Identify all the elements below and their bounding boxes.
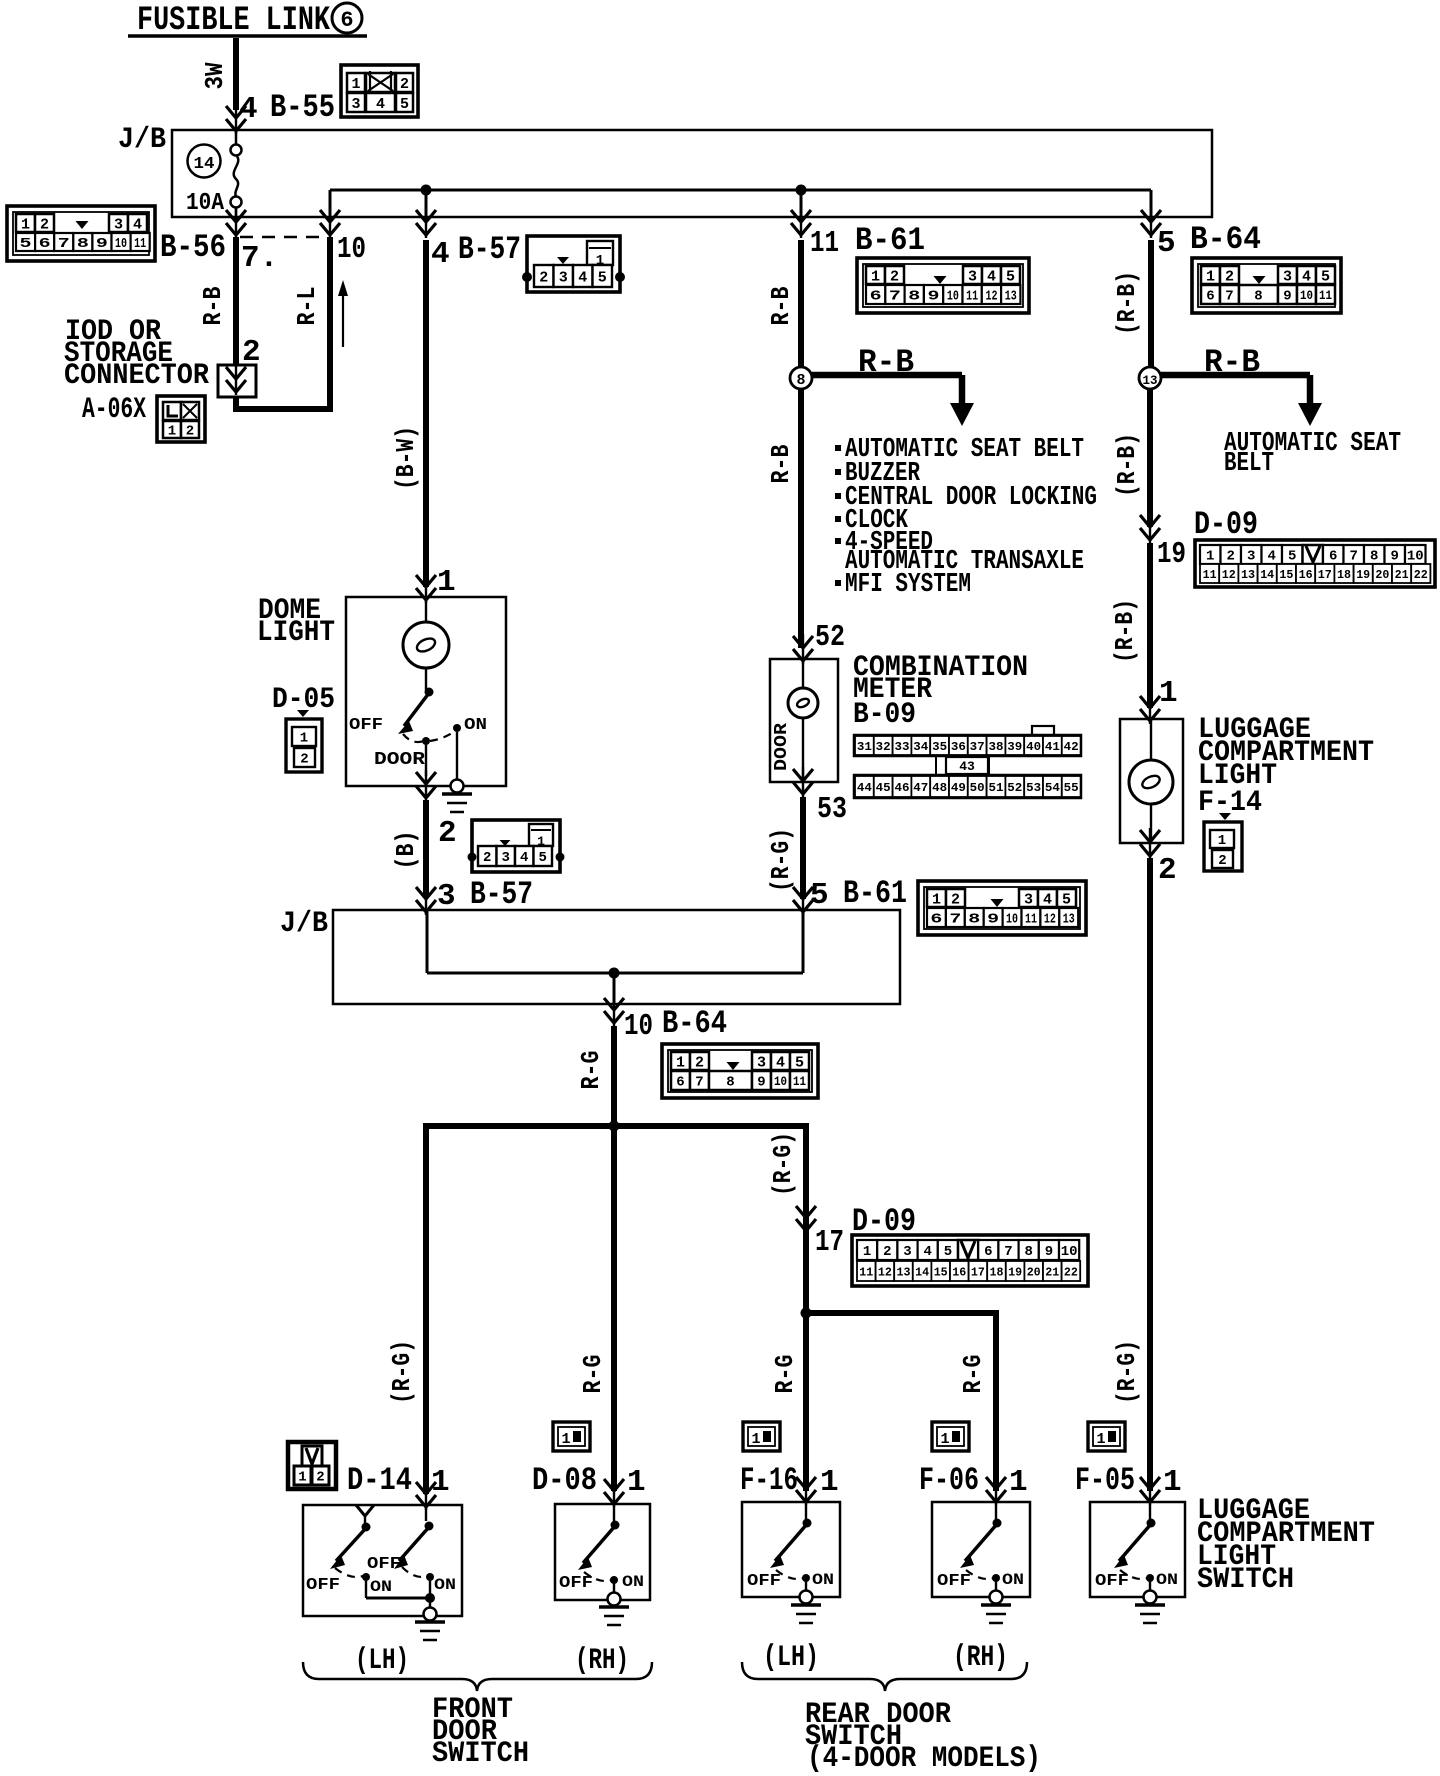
svg-text:11: 11	[134, 236, 146, 252]
svg-text:F-06: F-06	[919, 1462, 979, 1499]
label pin 1 luggage	[1159, 676, 1178, 711]
svg-text:1: 1	[871, 268, 880, 285]
svg-text:19: 19	[1356, 568, 1370, 582]
label pin 4 B-57	[431, 231, 521, 272]
svg-text:4: 4	[923, 1244, 931, 1260]
svg-text:5: 5	[1288, 549, 1296, 565]
junction node in J/B at B-57 feed	[421, 185, 432, 196]
svg-text:38: 38	[989, 740, 1004, 754]
front door switch RH D-08 box	[555, 1504, 650, 1625]
svg-text:4: 4	[1302, 268, 1311, 285]
connector F-14 icon	[1204, 813, 1242, 871]
svg-text:7: 7	[889, 289, 901, 305]
svg-text:(B): (B)	[391, 831, 421, 870]
svg-text:1: 1	[820, 1465, 839, 1500]
svg-text:13: 13	[1241, 568, 1255, 582]
wire elbow A-06X to J/B pin 10 (R-L)	[236, 237, 330, 409]
svg-text:4: 4	[239, 92, 258, 127]
text COMBINATION METER B-09	[853, 651, 1028, 732]
svg-text:R-L: R-L	[292, 287, 322, 326]
svg-text:10: 10	[774, 1074, 787, 1089]
svg-text:1: 1	[627, 1465, 646, 1500]
svg-text:F-05: F-05	[1075, 1462, 1135, 1499]
svg-text:6: 6	[930, 912, 942, 928]
svg-text:B-64: B-64	[1190, 221, 1261, 258]
svg-text:1: 1	[1096, 1431, 1105, 1448]
wire (B-W) J/B to dome light	[423, 240, 429, 587]
svg-text:32: 32	[876, 740, 891, 754]
svg-text:2: 2	[539, 269, 548, 286]
brace rear door switches	[742, 1662, 1027, 1691]
rear door switch RH F-06 label	[919, 1462, 1028, 1500]
label pin 2 A-06X	[242, 335, 261, 370]
svg-text:R-B: R-B	[1204, 344, 1260, 381]
svg-text:4: 4	[520, 850, 528, 866]
fuse 14 circle label	[188, 145, 221, 178]
svg-text:7.: 7.	[241, 241, 278, 276]
svg-text:B-61: B-61	[843, 875, 907, 912]
wire label (R-G) D-09	[768, 1132, 798, 1196]
IOD terminal box A-06X with chevrons	[218, 365, 256, 397]
chevrons meter pin 52	[793, 634, 813, 664]
wire (R-B) node 13 to D-09	[1147, 389, 1153, 527]
svg-text:OFF: OFF	[367, 1555, 401, 1574]
svg-text:46: 46	[895, 781, 910, 795]
svg-text:11: 11	[966, 289, 978, 305]
chevrons B-56 pin 10	[320, 208, 340, 238]
svg-text:41: 41	[1045, 740, 1060, 754]
meter DOOR lamp	[788, 661, 818, 780]
wire label (B)	[391, 831, 421, 870]
wire fusible link to J/B (3W)	[233, 38, 239, 110]
connector B-09 icon	[854, 726, 1081, 798]
svg-text:7: 7	[695, 1075, 703, 1091]
svg-text:40: 40	[1026, 740, 1041, 754]
svg-text:20: 20	[1027, 1265, 1041, 1279]
svg-text:1: 1	[1206, 268, 1215, 285]
svg-text:A-06X: A-06X	[82, 393, 146, 427]
svg-text:9: 9	[987, 912, 999, 928]
svg-text:37: 37	[970, 740, 985, 754]
svg-text:3: 3	[502, 850, 510, 866]
svg-text:5: 5	[1157, 226, 1176, 261]
label (LH) rear	[763, 1641, 819, 1675]
svg-text:F-16: F-16	[740, 1462, 798, 1499]
label pin 2 luggage	[1158, 853, 1177, 888]
svg-text:5: 5	[1062, 891, 1071, 908]
label pin 10	[337, 232, 366, 267]
svg-text:4: 4	[1043, 891, 1052, 908]
svg-text:1: 1	[300, 731, 308, 747]
svg-text:45: 45	[876, 781, 891, 795]
chevrons dome light pin 2 exit	[416, 770, 436, 801]
svg-text:21: 21	[1395, 568, 1409, 582]
svg-text:8: 8	[908, 289, 920, 305]
svg-text:2: 2	[1218, 853, 1226, 869]
svg-text:13: 13	[897, 1265, 911, 1279]
connector B-55 icon	[341, 65, 418, 117]
dome light housing D-05	[346, 597, 506, 786]
svg-text:11: 11	[810, 226, 839, 261]
svg-text:CONNECTOR: CONNECTOR	[64, 359, 209, 393]
svg-text:36: 36	[951, 740, 966, 754]
wire label R-B (B-61)	[766, 286, 796, 325]
text FRONT DOOR SWITCH	[432, 1693, 529, 1771]
svg-text:LIGHT: LIGHT	[257, 616, 335, 650]
svg-text:1: 1	[437, 565, 456, 600]
svg-text:7: 7	[1350, 549, 1358, 565]
svg-text:22: 22	[1064, 1265, 1078, 1279]
connector B-64 icon lower	[662, 1044, 818, 1098]
svg-text:OFF: OFF	[747, 1572, 781, 1591]
rear door switch RH F-06 box	[932, 1502, 1030, 1623]
svg-text:4: 4	[376, 96, 385, 113]
connector B-57 icon upper	[522, 236, 625, 292]
label ON dome	[464, 716, 487, 735]
svg-text:11: 11	[1203, 568, 1217, 582]
svg-text:7: 7	[1225, 289, 1233, 305]
svg-text:5: 5	[795, 1054, 804, 1071]
svg-text:10A: 10A	[186, 190, 225, 217]
svg-text:18: 18	[990, 1265, 1004, 1279]
svg-text:1: 1	[1163, 1465, 1182, 1500]
svg-text:53: 53	[817, 792, 847, 827]
label D-05	[272, 683, 335, 717]
svg-text:10: 10	[337, 232, 366, 267]
wire label R-B lower	[766, 444, 796, 483]
svg-text:51: 51	[989, 781, 1004, 795]
label pin 53	[817, 792, 847, 827]
text DOME LIGHT	[257, 594, 335, 650]
svg-text:B-64: B-64	[662, 1005, 727, 1042]
svg-text:8: 8	[1370, 549, 1378, 565]
chevrons at B-55 pin 4 crossing	[226, 104, 246, 134]
svg-text:8: 8	[968, 912, 980, 928]
svg-text:10: 10	[1300, 288, 1313, 303]
svg-text:11: 11	[1319, 288, 1332, 303]
label R-B branch	[858, 344, 914, 381]
direction arrow up beside R-L	[338, 280, 348, 347]
wire label R-G D-08	[578, 1355, 608, 1394]
svg-text:13: 13	[1063, 912, 1075, 928]
svg-text:ON: ON	[622, 1573, 644, 1591]
svg-text:2: 2	[1225, 268, 1234, 285]
wire (R-G) bus to D-09 pin 17	[803, 1126, 809, 1313]
label (LH) front	[355, 1644, 409, 1678]
front door switch RH D-08 label	[532, 1462, 646, 1500]
svg-text:R-B: R-B	[766, 286, 796, 325]
wire to rear door switch LH	[803, 1313, 809, 1491]
text IOD OR STORAGE CONNECTOR	[64, 315, 209, 393]
ground at dome light	[442, 780, 472, 813]
wire (R-G) to front door switch LH	[423, 1126, 429, 1494]
chevrons dome light pin 1	[416, 573, 436, 603]
svg-text:15: 15	[934, 1265, 948, 1279]
wire R-G J/B to door switch bus	[611, 1026, 617, 1126]
combination meter housing	[770, 659, 838, 782]
svg-text:5: 5	[1321, 268, 1330, 285]
svg-text:R-B: R-B	[198, 286, 228, 325]
svg-text:13: 13	[1143, 373, 1158, 388]
chevrons F-05 pin 1	[1140, 1475, 1160, 1505]
svg-text:8: 8	[726, 1075, 734, 1091]
connector F-05 icon	[1088, 1422, 1125, 1451]
svg-text:12: 12	[1044, 912, 1056, 928]
svg-text:D-14: D-14	[347, 1462, 412, 1499]
svg-text:43: 43	[959, 759, 975, 774]
svg-text:B-09: B-09	[853, 698, 916, 732]
connector F-16 icon	[743, 1422, 780, 1451]
svg-text:2: 2	[890, 268, 899, 285]
chevrons J/B entry pin 5	[793, 885, 813, 915]
svg-text:9: 9	[1283, 289, 1291, 305]
svg-text:SWITCH: SWITCH	[1197, 1563, 1294, 1597]
svg-text:17: 17	[1318, 568, 1332, 582]
svg-text:7: 7	[949, 912, 961, 928]
chevrons D-09 pin 19	[1140, 513, 1160, 543]
chevrons B-64 pin 5	[1141, 208, 1161, 238]
svg-text:B-56: B-56	[160, 229, 226, 266]
svg-text:(B-W): (B-W)	[391, 426, 421, 490]
svg-text:1: 1	[21, 216, 30, 233]
svg-text:9: 9	[757, 1075, 765, 1091]
chevrons B-64 pin 10 exit	[604, 996, 624, 1026]
wire label R-G	[576, 1051, 606, 1090]
svg-text:10: 10	[1006, 912, 1018, 928]
svg-text:D-09: D-09	[1194, 506, 1258, 543]
svg-text:54: 54	[1045, 781, 1060, 795]
junction node lower J/B	[609, 968, 620, 979]
svg-text:4: 4	[133, 216, 142, 233]
svg-text:42: 42	[1064, 740, 1079, 754]
svg-text:35: 35	[932, 740, 947, 754]
svg-text:1: 1	[676, 1054, 685, 1071]
svg-text:R-B: R-B	[858, 344, 914, 381]
svg-text:22: 22	[1414, 568, 1428, 582]
svg-text:3: 3	[1283, 268, 1292, 285]
svg-text:48: 48	[932, 781, 947, 795]
luggage compartment light housing	[1120, 719, 1183, 843]
dome light bulb	[403, 600, 449, 690]
svg-text:2: 2	[1227, 549, 1235, 565]
label pin 5 B-61	[810, 875, 907, 913]
svg-text:7: 7	[58, 236, 70, 252]
svg-text:19: 19	[1008, 1265, 1022, 1279]
svg-text:B-57: B-57	[458, 231, 521, 268]
svg-text:4: 4	[776, 1054, 785, 1071]
svg-text:OFF: OFF	[1095, 1572, 1129, 1591]
connector B-61 icon upper	[857, 258, 1029, 313]
svg-text:(RH): (RH)	[575, 1644, 629, 1678]
chevrons J/B entry pin 3	[416, 885, 436, 915]
svg-text:10: 10	[115, 236, 127, 252]
wire label R-L	[292, 287, 322, 326]
label pin 3 B-57	[437, 876, 533, 914]
svg-text:1: 1	[168, 424, 176, 440]
svg-text:9: 9	[1045, 1244, 1053, 1260]
svg-text:(RH): (RH)	[953, 1641, 1008, 1675]
wire R-B node 8 to combination meter	[798, 389, 804, 648]
svg-text:ON: ON	[1156, 1571, 1178, 1589]
wire (B) dome to J/B	[423, 800, 429, 897]
dome light wire to ground via ON	[426, 732, 457, 779]
wire label (R-G) D-14	[387, 1340, 417, 1404]
svg-text:5: 5	[539, 850, 547, 866]
svg-text:4: 4	[1268, 549, 1276, 565]
svg-text:ON: ON	[1002, 1571, 1024, 1589]
dome switch lever	[398, 688, 434, 735]
svg-text:14: 14	[915, 1265, 929, 1279]
node 8 junction circle	[790, 367, 812, 389]
svg-text:20: 20	[1375, 568, 1389, 582]
svg-text:1: 1	[1009, 1465, 1028, 1500]
svg-text:ON: ON	[812, 1571, 834, 1589]
svg-text:2: 2	[483, 850, 491, 866]
svg-text:(LH): (LH)	[355, 1644, 409, 1678]
svg-text:(4-DOOR MODELS): (4-DOOR MODELS)	[807, 1742, 1041, 1776]
wire R-B to B-61 pin 11	[798, 240, 804, 368]
svg-text:53: 53	[1026, 781, 1041, 795]
connector B-57 icon lower	[468, 820, 565, 872]
wire branch to rear door switch RH	[806, 1313, 996, 1491]
label pin 11 B-61	[810, 222, 925, 261]
svg-text:31: 31	[857, 740, 872, 754]
svg-text:11: 11	[793, 1074, 806, 1089]
label pin 7	[241, 241, 278, 276]
svg-text:R-B: R-B	[766, 444, 796, 483]
svg-text:6: 6	[340, 8, 353, 33]
luggage light bulb	[1129, 721, 1173, 841]
svg-text:17: 17	[815, 1225, 844, 1260]
junction node rear switch branch	[801, 1308, 812, 1319]
svg-text:9: 9	[96, 236, 108, 252]
svg-text:9: 9	[928, 289, 940, 305]
label R-B branch right	[1204, 344, 1260, 381]
text REAR DOOR SWITCH 4-DOOR MODELS	[805, 1698, 1041, 1776]
svg-text:3: 3	[757, 1054, 766, 1071]
chevrons B-57 pin 4	[416, 208, 436, 238]
dome switch contacts and dashed travel	[403, 724, 461, 745]
svg-text:R-G: R-G	[958, 1355, 988, 1394]
svg-text:3: 3	[114, 216, 123, 233]
svg-text:ON: ON	[464, 716, 487, 735]
chevrons D-08 pin 1	[604, 1477, 624, 1507]
svg-text:8: 8	[77, 236, 89, 252]
svg-text:12: 12	[1222, 568, 1236, 582]
svg-text:11: 11	[859, 1265, 873, 1279]
wire label (B-W)	[391, 426, 421, 490]
svg-text:6: 6	[1206, 289, 1214, 305]
connector F-06 icon	[932, 1422, 969, 1451]
label OFF dome	[349, 716, 383, 735]
svg-text:18: 18	[1337, 568, 1351, 582]
svg-text:21: 21	[1045, 1265, 1059, 1279]
svg-text:R-G: R-G	[576, 1051, 606, 1090]
wire (R-G) meter to J/B	[800, 797, 806, 899]
svg-text:OFF: OFF	[306, 1576, 340, 1595]
svg-text:OFF: OFF	[349, 716, 383, 735]
label B-56	[160, 229, 226, 266]
wires inside lower J/B	[427, 912, 803, 1004]
svg-text:44: 44	[857, 781, 872, 795]
svg-text:1: 1	[940, 1431, 949, 1448]
svg-text:2: 2	[400, 76, 409, 93]
svg-text:3: 3	[968, 268, 977, 285]
svg-text:2: 2	[951, 891, 960, 908]
svg-text:13: 13	[1005, 289, 1017, 305]
chevrons F-16 pin 1	[796, 1475, 816, 1505]
svg-text:52: 52	[1007, 781, 1022, 795]
node 13 junction circle	[1139, 367, 1161, 389]
luggage compartment light switch F-05 label	[1075, 1462, 1182, 1500]
wire inside J/B horizontal distribution	[330, 190, 1151, 217]
fuse 10A symbol	[186, 131, 242, 217]
svg-text:5: 5	[598, 269, 607, 286]
label DOOR vertical	[772, 723, 792, 771]
wire label 3W	[200, 62, 230, 89]
svg-text:8: 8	[1024, 1244, 1032, 1260]
svg-text:J/B: J/B	[118, 123, 166, 157]
rear door switch LH F-16 box	[742, 1502, 840, 1623]
svg-text:1: 1	[561, 1431, 570, 1448]
chevrons F-06 pin 1	[986, 1475, 1006, 1505]
svg-text:BELT: BELT	[1224, 449, 1274, 479]
label pin 2 dome exit	[438, 816, 457, 851]
svg-text:2: 2	[883, 1244, 891, 1260]
brace front door switches	[303, 1662, 652, 1691]
svg-text:16: 16	[952, 1265, 966, 1279]
label (RH) front	[575, 1644, 629, 1678]
svg-text:R-G: R-G	[578, 1355, 608, 1394]
svg-text:5: 5	[400, 96, 409, 113]
svg-text:6: 6	[984, 1244, 992, 1260]
svg-text:55: 55	[1064, 781, 1079, 795]
branch wire R-B to accessories arrow	[812, 375, 974, 426]
connector D-09 icon upper	[1195, 540, 1435, 587]
label pin 1 dome	[437, 565, 456, 600]
label (RH) rear	[953, 1641, 1008, 1675]
svg-text:B-55: B-55	[270, 89, 335, 126]
svg-text:B-61: B-61	[855, 222, 925, 259]
svg-text:1: 1	[1206, 549, 1214, 565]
svg-text:5: 5	[1006, 268, 1015, 285]
connector B-61 icon lower	[918, 881, 1086, 935]
svg-text:2: 2	[40, 216, 49, 233]
svg-text:4: 4	[578, 269, 587, 286]
svg-text:(R-G): (R-G)	[1112, 1340, 1142, 1404]
label pin 5 B-64	[1157, 221, 1261, 261]
svg-text:47: 47	[913, 781, 928, 795]
svg-text:5: 5	[20, 236, 32, 252]
label DOOR dome	[374, 750, 425, 770]
svg-text:4: 4	[987, 268, 996, 285]
svg-text:3: 3	[903, 1244, 911, 1260]
svg-text:11: 11	[1025, 912, 1037, 928]
svg-text:3: 3	[559, 269, 568, 286]
svg-text:F-14: F-14	[1198, 786, 1262, 820]
wire R-B to IOD connector	[233, 237, 239, 365]
chevrons luggage light pin 1	[1140, 694, 1160, 724]
svg-text:2: 2	[438, 816, 457, 851]
wire label (R-G) meter	[766, 828, 796, 892]
svg-text:6: 6	[1329, 549, 1337, 565]
junction node in J/B at B-61 feed	[796, 185, 807, 196]
svg-text:(R-B): (R-B)	[1112, 271, 1142, 335]
chevrons B-61 pin 11	[791, 208, 811, 238]
connector D-08 icon	[553, 1422, 590, 1451]
connector D-05 icon	[286, 710, 322, 772]
svg-text:1: 1	[1159, 676, 1178, 711]
